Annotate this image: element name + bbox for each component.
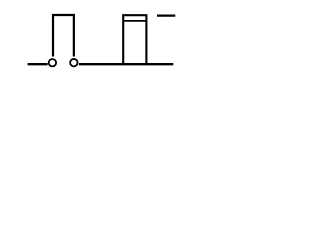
component body F1 (open-bottom rectangle standing on wire W2)	[123, 15, 146, 64]
terminal circle T1	[49, 59, 56, 66]
inner bar of F1 (second top line)	[122, 20, 147, 22]
short bar (isolated dash, top right)	[157, 15, 175, 17]
wire W1 (left lead)	[28, 63, 48, 65]
wire W2 (right lead, passes under body F1)	[79, 63, 173, 65]
terminal circle T2	[70, 59, 77, 66]
link bridge L1 (vertical riser from T1, top bar, vertical riser to T2)	[53, 15, 74, 57]
